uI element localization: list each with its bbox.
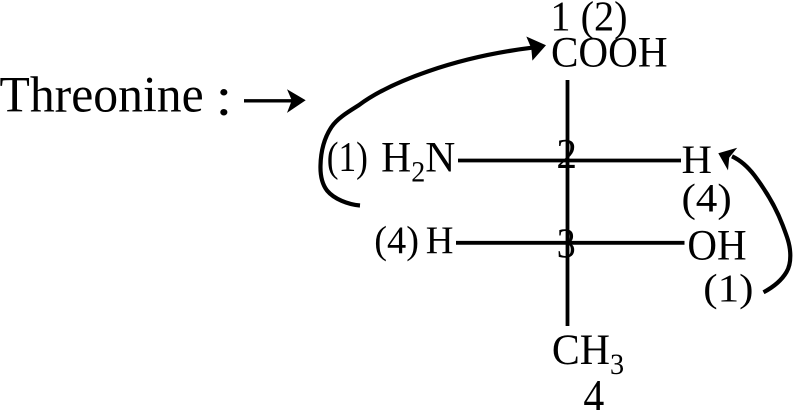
svg-text::: : [215,65,232,127]
svg-text:3: 3 [557,220,576,268]
arrow: title arrowhead [287,89,306,113]
svg-text:(4)H: (4)H [374,219,453,262]
bond: horizontal C3 row (H to OH) [456,241,685,245]
arrow: right curved arrow shaft (from (1) toward H) [732,156,790,292]
svg-text:(1): (1) [327,134,368,181]
bond: horizontal C2 row (H2N to H) [458,159,681,163]
svg-text:Threonine: Threonine [0,66,204,123]
svg-text:(4): (4) [681,176,731,221]
arrow: left curved arrow shaft (H2N toward COOH) [320,48,533,206]
arrow: title arrow shaft [244,99,293,102]
svg-text:4: 4 [583,371,604,410]
bond: vertical backbone C1-C4 [566,80,570,326]
svg-text:2: 2 [556,131,577,177]
arrow: right curved arrowhead pointing at H (dart) [718,148,737,171]
svg-text:COOH: COOH [551,29,668,77]
svg-text:OH: OH [687,221,746,270]
svg-text:(1): (1) [703,266,753,311]
arrow: left curved arrowhead pointing at COOH [526,37,546,61]
